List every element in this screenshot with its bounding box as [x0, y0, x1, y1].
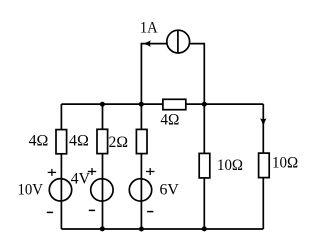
minus sign V3	[147, 211, 153, 213]
label 10V	[18, 181, 44, 198]
wire branch1 riser (node A to R1)	[60, 104, 62, 130]
node A2 junction dot	[100, 102, 105, 107]
voltage source V1 10V	[49, 179, 71, 201]
wire middle bus center (node B to node C through R4)	[141, 103, 204, 105]
svg-text:6V: 6V	[160, 181, 180, 198]
resistor R2 4ohm	[97, 129, 108, 153]
wire branch4 riser (node C to R5)	[203, 104, 205, 153]
svg-text:10Ω: 10Ω	[272, 155, 298, 172]
svg-text:4V: 4V	[71, 171, 91, 188]
bottom junction dot branch3	[139, 227, 144, 232]
wire top rail right: current source to corner, down to node C	[189, 44, 204, 105]
plus sign V3	[146, 168, 154, 175]
minus sign V1	[47, 211, 53, 213]
resistor R1 4ohm	[56, 130, 67, 154]
wire bottom bus	[61, 228, 263, 230]
wire branch3 lower (R3 through V3 to bottom bus)	[140, 154, 142, 229]
plus sign V1	[48, 169, 56, 176]
resistor R3 2ohm	[136, 129, 147, 153]
minus sign V2	[89, 209, 95, 211]
resistor R5 10ohm	[199, 153, 210, 178]
wire branch2 riser (bus to R2)	[102, 104, 104, 129]
wire top rail left: current source to corner, down to node B	[141, 44, 167, 105]
wire right edge lower (R6 to bottom bus)	[262, 178, 264, 229]
arrow current direction 1A pointing left	[143, 40, 151, 47]
node B junction dot	[139, 102, 144, 107]
label 4ohm R2	[69, 132, 89, 149]
wire middle bus right (node C to top-right corner)	[204, 103, 263, 105]
wire branch3 riser (node B to R3)	[140, 104, 142, 129]
resistor R6 10ohm	[259, 153, 270, 178]
resistor R4 4ohm horizontal	[163, 99, 186, 109]
current source I1 1A	[167, 30, 190, 53]
label 2ohm R3	[109, 134, 129, 151]
arrow branch current pointing down on right edge	[260, 118, 267, 126]
svg-text:4Ω: 4Ω	[29, 132, 49, 149]
plus sign V2	[88, 168, 96, 175]
svg-text:2Ω: 2Ω	[109, 134, 129, 151]
label 4ohm R4	[160, 111, 179, 128]
voltage source V3 6V	[129, 179, 151, 201]
label 4V	[71, 171, 91, 188]
wire middle bus left (node A to node B)	[61, 103, 141, 105]
label 1A	[140, 20, 158, 37]
wire branch4 lower (R5 to bottom bus)	[203, 178, 205, 229]
label 4ohm R1	[29, 132, 49, 149]
svg-text:10V: 10V	[18, 181, 44, 198]
bottom junction dot branch4	[202, 226, 207, 231]
bottom junction dot branch2	[100, 226, 105, 231]
wire right edge upper (corner down to R6)	[262, 104, 264, 153]
svg-text:4Ω: 4Ω	[160, 111, 179, 128]
node C junction dot	[202, 102, 207, 107]
label 6V	[160, 181, 180, 198]
svg-text:10Ω: 10Ω	[217, 157, 243, 174]
label 10ohm R5	[217, 157, 243, 174]
voltage source V2 4V	[91, 179, 113, 201]
svg-text:1A: 1A	[140, 20, 158, 37]
svg-text:4Ω: 4Ω	[69, 132, 89, 149]
wire branch2 lower (R2 through V2 to bottom bus)	[102, 154, 104, 229]
wire branch1 lower (R1 through V1 to bottom bus)	[60, 154, 62, 229]
label 10ohm R6	[272, 155, 298, 172]
